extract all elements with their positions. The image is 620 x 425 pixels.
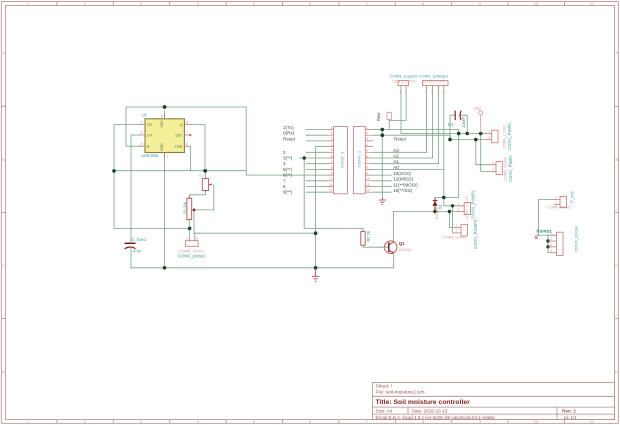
wire W1 branch down to node D	[444, 134, 459, 198]
node B pot top	[203, 169, 207, 173]
resistor R1	[182, 196, 192, 220]
svg-text:R?: R?	[199, 174, 204, 178]
svg-text:CONN_01X02: CONN_01X02	[503, 125, 507, 149]
wire node D to pump1 pin1	[444, 198, 453, 206]
svg-text:CONN_01X04: CONN_01X04	[422, 80, 446, 84]
svg-text:TR: TR	[147, 123, 152, 127]
node pump2 branch	[448, 210, 451, 213]
wire C1 left lead down to W2	[450, 115, 455, 139]
svg-text:C: C	[2, 264, 5, 268]
wire pump1 pin1 stub joint	[453, 205, 457, 207]
node diode bottom	[433, 210, 437, 214]
wire H2 horizontal to header ground column	[194, 232, 316, 234]
svg-text:CONN_probe1: CONN_probe1	[178, 253, 206, 258]
svg-text:2: 2	[492, 168, 494, 172]
svg-text:KiCad E.D.A. kicad 4.0.2+e4-6: KiCad E.D.A. kicad 4.0.2+e4-6225~38~ubun…	[376, 415, 496, 420]
svg-text:B: B	[615, 158, 618, 162]
wire U1 pin L1 to node A	[114, 125, 140, 171]
svg-text:CONN_1: CONN_1	[340, 151, 345, 168]
svg-text:2: 2	[488, 136, 490, 140]
U1 pin R2 no-connect mark	[189, 134, 191, 136]
wire row 2	[306, 151, 328, 153]
node D3 row	[303, 156, 306, 159]
svg-text:2: 2	[141, 121, 143, 125]
svg-text:Rev: 2: Rev: 2	[562, 408, 576, 413]
svg-text:+: +	[121, 241, 124, 246]
svg-text:1: 1	[492, 161, 494, 165]
op-amp/timer U1 body	[139, 113, 191, 159]
svg-text:6(**): 6(**)	[283, 173, 293, 178]
wire W1 branch to PWR2 pin2	[481, 134, 491, 172]
svg-text:10: 10	[329, 177, 333, 181]
wire U1 pin R3 down to row y171	[190, 146, 192, 171]
svg-text:8: 8	[283, 184, 286, 189]
svg-text:+5V: +5V	[473, 106, 481, 111]
svg-text:CONN_01X02: CONN_01X02	[392, 80, 416, 84]
svg-text:7: 7	[331, 160, 333, 164]
svg-text:1N4148: 1N4148	[435, 207, 439, 220]
svg-text:VDD: VDD	[160, 120, 164, 128]
wire C_fixe1 bottom to ground rail	[130, 248, 132, 268]
wire U1 pin L2 down to C_fixe1	[131, 135, 140, 243]
wire W2 rail	[450, 139, 486, 141]
svg-text:9: 9	[479, 2, 481, 6]
svg-text:7: 7	[366, 2, 368, 6]
P2 pin stubs right	[365, 130, 373, 193]
svg-text:12(MISO): 12(MISO)	[393, 177, 413, 182]
connector CONN_settings1	[419, 74, 450, 95]
svg-text:Date: 2016-10-13: Date: 2016-10-13	[412, 408, 448, 413]
wire C1 right lead to W1	[460, 115, 467, 133]
svg-text:Raw: Raw	[376, 112, 381, 121]
svg-text:7: 7	[283, 178, 286, 183]
svg-text:CV: CV	[147, 134, 153, 138]
svg-text:1: 1	[458, 202, 460, 206]
svg-text:1: 1	[555, 196, 557, 200]
svg-text:12: 12	[329, 189, 333, 193]
P1 pin numbers	[329, 126, 333, 193]
wire row 0(Rx)	[306, 134, 328, 136]
wire row 8	[306, 186, 328, 188]
node W2 at PWR2	[474, 138, 478, 142]
connector P_on1	[547, 190, 575, 209]
svg-text:5: 5	[253, 420, 255, 424]
svg-text:1: 1	[27, 2, 29, 6]
svg-text:13(SCK): 13(SCK)	[393, 171, 411, 176]
connector CONN_PWR2	[491, 155, 514, 182]
wire VDD top rail	[126, 106, 246, 108]
svg-text:3: 3	[140, 420, 142, 424]
svg-text:9(**): 9(**)	[283, 190, 293, 195]
svg-text:2: 2	[458, 208, 460, 212]
resistor R2 base	[361, 231, 371, 245]
wire pot RV1 bottom to R1 top	[189, 191, 205, 199]
wire VDD left drop to U1 pin bottom-left	[126, 107, 140, 146]
connector CONN_probe1	[178, 236, 206, 258]
svg-text:CONN_PWR2: CONN_PWR2	[508, 155, 513, 182]
svg-text:CONN_PUMP2: CONN_PUMP2	[473, 219, 478, 249]
svg-text:12: 12	[366, 189, 370, 193]
pin header P1	[328, 126, 348, 194]
wire wiper node down to H2	[193, 210, 195, 233]
wire P_on1 pin1 to pump header	[539, 200, 554, 236]
node A	[112, 169, 116, 173]
svg-text:2: 2	[405, 90, 407, 94]
wire CONN_supply5 pin1 down to W1	[400, 89, 402, 134]
svg-text:8: 8	[422, 420, 424, 424]
svg-text:7: 7	[366, 160, 368, 164]
wire row pin4 to ground column	[316, 146, 328, 148]
svg-text:R1 10k: R1 10k	[182, 202, 187, 214]
wire row GND2 to W2	[373, 135, 450, 139]
wire node row y171 horizontal	[114, 170, 246, 172]
svg-text:Sheet: /: Sheet: /	[376, 384, 393, 390]
svg-text:1: 1	[167, 155, 169, 159]
svg-text:R2 1k: R2 1k	[366, 231, 371, 241]
svg-text:P_on1: P_on1	[570, 190, 575, 203]
wire ground rail bottom	[131, 267, 394, 269]
svg-text:CONN_01X02: CONN_01X02	[442, 235, 466, 239]
svg-text:10: 10	[534, 420, 538, 424]
wire CONN_settings pin4 down to node D	[443, 89, 445, 198]
svg-text:8: 8	[161, 115, 163, 119]
ground symbol main rail	[312, 268, 319, 281]
svg-text:2: 2	[456, 229, 458, 233]
node RAW row	[381, 128, 385, 132]
wire H1 horizontal left	[114, 227, 189, 229]
svg-text:6: 6	[366, 154, 368, 158]
node D diode top	[442, 196, 446, 200]
wire row 9(**)	[306, 191, 328, 193]
svg-text:2: 2	[331, 132, 333, 136]
svg-text:1: 1	[425, 90, 427, 94]
wire U1 top pin to VDD rail	[164, 111, 166, 120]
fuse/resistor on Raw line	[387, 112, 391, 119]
svg-text:4: 4	[197, 420, 199, 424]
connector CONN_PUMP1	[457, 189, 476, 220]
svg-text:CONN_01X02: CONN_01X02	[504, 157, 508, 181]
svg-text:CONN_01X02: CONN_01X02	[465, 196, 469, 220]
power flag +5V	[473, 106, 483, 133]
wire row 6(**) to header P1	[246, 174, 328, 176]
svg-text:1: 1	[331, 126, 333, 130]
node GND row	[381, 133, 385, 137]
svg-text:3: 3	[550, 243, 552, 247]
node W2 left	[448, 138, 452, 142]
connector CONN_PUMP2	[442, 219, 478, 249]
svg-text:4: 4	[197, 2, 199, 6]
no-connect X on pump feed	[535, 236, 538, 239]
svg-text:4: 4	[550, 249, 552, 253]
wire pot wiper drop	[194, 185, 214, 210]
svg-text:3: 3	[186, 121, 188, 125]
svg-text:1: 1	[456, 224, 458, 228]
wire CONN_settings pin3 down	[438, 89, 440, 164]
svg-text:THR: THR	[175, 145, 183, 149]
svg-text:9: 9	[479, 420, 481, 424]
wire rows A3 A2 A1 A0	[373, 152, 444, 169]
svg-text:B: B	[2, 158, 5, 162]
wire row 4	[306, 163, 328, 165]
svg-text:6: 6	[309, 2, 311, 6]
svg-text:4: 4	[442, 90, 444, 94]
P2 right net labels	[393, 136, 418, 193]
svg-text:A2: A2	[393, 154, 399, 159]
svg-text:2: 2	[84, 2, 86, 6]
wire net D6 corner from VDD rail down	[245, 107, 247, 175]
wire pot RV1 top lead	[204, 171, 206, 178]
wire pump2 pin1 branch	[449, 212, 454, 228]
wire net D3 vertical down	[303, 158, 305, 228]
wire R2 bottom to Q1 base	[363, 245, 389, 247]
svg-text:CONN_01X02: CONN_01X02	[547, 205, 571, 209]
svg-text:2: 2	[84, 420, 86, 424]
svg-text:4: 4	[141, 142, 143, 146]
wire CONN_settings pin2 down	[432, 89, 434, 159]
ground symbol header2	[379, 198, 386, 205]
svg-text:10: 10	[534, 2, 538, 6]
svg-text:6: 6	[186, 142, 188, 146]
svg-text:8: 8	[422, 2, 424, 6]
svg-text:Title: Soil moisture controlle: Title: Soil moisture controller	[376, 399, 471, 406]
node W1 at +5V	[479, 132, 483, 136]
transistor Q1	[384, 241, 412, 254]
wire rows 13 12 11 10 short	[373, 175, 392, 192]
svg-text:47uF: 47uF	[133, 249, 143, 254]
wire W2 branch to PWR2 pin1	[476, 140, 491, 165]
U1 pin names inside	[147, 120, 183, 151]
svg-text:11: 11	[366, 183, 370, 187]
wire row 3(**)	[299, 157, 328, 159]
node W1 at 458.7	[457, 132, 461, 136]
node R1 bottom H1	[188, 227, 192, 231]
svg-text:Reset: Reset	[394, 136, 407, 141]
node wiper (dark red)	[193, 209, 196, 212]
pump output header 4pin	[535, 226, 579, 256]
svg-text:11(**/MOSI): 11(**/MOSI)	[393, 182, 418, 187]
title block	[372, 382, 614, 419]
svg-text:7: 7	[366, 420, 368, 424]
svg-text:A: A	[615, 51, 618, 55]
svg-text:C_fixe1: C_fixe1	[132, 237, 147, 242]
svg-text:100nF: 100nF	[461, 116, 466, 128]
U1 left pin stubs	[139, 114, 190, 159]
svg-text:D: D	[2, 370, 5, 374]
node ground rail U1	[163, 266, 167, 270]
svg-text:2: 2	[196, 237, 198, 241]
svg-text:A3: A3	[393, 148, 399, 153]
node pump header pin3	[546, 245, 549, 248]
svg-text:Pump1: Pump1	[537, 228, 553, 233]
potentiometer RV1	[199, 174, 212, 192]
svg-text:1: 1	[27, 420, 29, 424]
svg-text:10: 10	[366, 177, 370, 181]
wire collector rail y211.5	[393, 211, 456, 213]
diode D1	[432, 198, 442, 221]
wire pump header bus vertical	[547, 235, 549, 252]
svg-text:7: 7	[186, 131, 188, 135]
node H2 ground column	[314, 231, 318, 235]
svg-text:A0: A0	[393, 165, 399, 170]
svg-text:Q1: Q1	[399, 241, 405, 246]
svg-text:4: 4	[366, 143, 368, 147]
svg-text:Q: Q	[180, 123, 183, 127]
wire row Reset left	[306, 140, 328, 142]
svg-text:0(Rx): 0(Rx)	[283, 131, 295, 136]
svg-text:LMC555: LMC555	[142, 153, 159, 158]
svg-text:D: D	[615, 370, 618, 374]
svg-text:3: 3	[366, 137, 368, 141]
svg-text:C1: C1	[448, 122, 454, 127]
svg-text:3: 3	[437, 90, 439, 94]
pin header P2	[353, 126, 373, 194]
wire row 5(**)	[306, 168, 328, 170]
svg-text:CONN_PUMP1: CONN_PUMP1	[471, 189, 476, 219]
svg-text:File: soil-moisture2.sch: File: soil-moisture2.sch	[376, 390, 425, 396]
svg-text:1: 1	[399, 90, 401, 94]
P2 pin numbers	[366, 126, 370, 193]
svg-text:1: 1	[488, 130, 490, 134]
wire fuse bottom stub	[388, 120, 390, 130]
svg-text:A1: A1	[393, 159, 399, 164]
wire U1 bottom pin to ground rail	[164, 154, 166, 268]
wire CONN_supply5 pin2 to RAW fuse	[389, 89, 406, 121]
svg-text:1: 1	[366, 126, 368, 130]
svg-text:11: 11	[329, 183, 333, 187]
svg-text:Id: 1/1: Id: 1/1	[564, 415, 577, 420]
svg-text:2: 2	[550, 237, 552, 241]
svg-text:4: 4	[283, 161, 286, 166]
wire Q1 emitter drop to ground rail	[393, 253, 395, 268]
svg-text:CONN_supply5: CONN_supply5	[390, 74, 419, 79]
svg-text:GND: GND	[160, 143, 164, 151]
svg-text:9: 9	[366, 171, 368, 175]
svg-text:8: 8	[366, 166, 368, 170]
connector CONN_supply5	[390, 74, 419, 95]
svg-text:5: 5	[253, 2, 255, 6]
svg-text:Size: A4: Size: A4	[376, 408, 393, 413]
wire diode D1 top to node D	[435, 197, 444, 199]
svg-text:3: 3	[331, 137, 333, 141]
wire ground column vertical	[315, 147, 317, 268]
svg-text:2: 2	[366, 132, 368, 136]
node VDD at U1 top	[163, 105, 167, 109]
wire R1 bottom through H1 to probe pin 1	[188, 220, 190, 237]
wire row 7	[306, 180, 328, 182]
wire node A vertical to H1	[113, 171, 115, 229]
node pump header pin2	[546, 239, 549, 242]
svg-text:R: R	[147, 145, 150, 149]
svg-text:DIS: DIS	[176, 134, 183, 138]
P1 pin stubs left	[328, 130, 334, 193]
svg-text:10(**/SS): 10(**/SS)	[393, 188, 413, 193]
svg-text:5: 5	[331, 149, 333, 153]
svg-text:6: 6	[309, 420, 311, 424]
svg-text:Reset: Reset	[283, 136, 296, 141]
P1 left net labels	[283, 125, 296, 195]
wires: main green nets	[114, 89, 554, 268]
U1 top and bottom pin stubs	[164, 114, 166, 159]
svg-text:4: 4	[331, 143, 333, 147]
wire pump2 pin2 branch	[453, 206, 455, 233]
wire U1 pin R1 right and down to node B	[190, 125, 205, 171]
capacitor C_fixe1 polarized	[121, 237, 147, 254]
connector CONN_PWR1	[486, 123, 512, 150]
svg-text:CONN_settings1: CONN_settings1	[419, 74, 450, 79]
wire pump header feed	[536, 234, 548, 236]
svg-text:6: 6	[331, 154, 333, 158]
svg-text:C: C	[615, 264, 618, 268]
svg-text:CONN_2: CONN_2	[357, 150, 362, 167]
wire net D3 horizontal to R2	[304, 228, 363, 231]
svg-text:1: 1	[186, 237, 188, 241]
wire row RAW to W1	[373, 130, 459, 134]
svg-text:3: 3	[140, 2, 142, 6]
capacitor C1	[448, 111, 466, 128]
wire Q1 collector drop	[392, 212, 394, 242]
svg-text:1(Tx): 1(Tx)	[283, 125, 294, 130]
node W1 at C1	[465, 132, 469, 136]
U1 pin numbers	[141, 115, 189, 159]
svg-text:2: 2	[283, 150, 286, 155]
svg-text:2: 2	[555, 201, 557, 205]
svg-text:9: 9	[331, 171, 333, 175]
node ground rail column	[314, 266, 318, 270]
svg-text:5(**): 5(**)	[283, 167, 293, 172]
U1 right pin stubs	[184, 125, 190, 147]
svg-text:3(**): 3(**)	[283, 156, 293, 161]
svg-text:CONN_01X04: CONN_01X04	[574, 226, 579, 252]
svg-text:5: 5	[141, 131, 143, 135]
wire row 1(Tx)	[306, 129, 328, 131]
wire CONN_settings pin1 down	[426, 89, 428, 153]
svg-text:U1: U1	[142, 113, 148, 118]
svg-text:2N2222: 2N2222	[399, 248, 412, 252]
svg-text:A: A	[2, 51, 5, 55]
svg-text:2: 2	[431, 90, 433, 94]
node pump1 pin1	[451, 204, 454, 207]
svg-text:5: 5	[366, 149, 368, 153]
svg-text:11: 11	[590, 2, 594, 6]
wire header2 ground drop	[381, 130, 383, 198]
svg-text:8: 8	[331, 166, 333, 170]
svg-text:11: 11	[590, 420, 594, 424]
wire W1 +5V rail	[401, 133, 486, 135]
svg-text:CONN_PWR1: CONN_PWR1	[507, 123, 512, 150]
wire probe pin2 drop	[194, 233, 196, 236]
